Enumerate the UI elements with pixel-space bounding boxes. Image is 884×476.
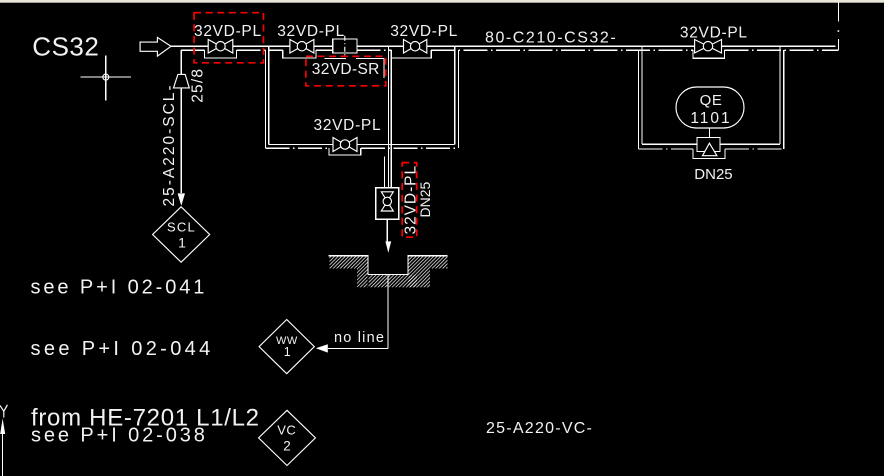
svg-text:1: 1 <box>284 345 291 359</box>
svg-text:1101: 1101 <box>690 110 731 127</box>
svg-text:see P+I 02-038: see P+I 02-038 <box>31 425 208 447</box>
svg-text:25-A220-SCL-: 25-A220-SCL- <box>161 83 178 206</box>
svg-text:DN25: DN25 <box>417 181 433 217</box>
svg-text:no line: no line <box>334 330 385 346</box>
svg-text:SCL: SCL <box>167 219 196 234</box>
svg-text:VC: VC <box>277 423 296 438</box>
svg-text:25/8: 25/8 <box>189 68 206 103</box>
svg-text:32VD-PL: 32VD-PL <box>277 23 345 40</box>
svg-text:QE: QE <box>700 92 723 109</box>
svg-text:32VD-PL: 32VD-PL <box>194 23 262 40</box>
svg-text:1: 1 <box>178 235 186 251</box>
svg-text:32VD-PL: 32VD-PL <box>314 117 382 134</box>
svg-text:see P+I 02-044: see P+I 02-044 <box>31 338 214 360</box>
svg-text:32VD-SR: 32VD-SR <box>312 61 380 78</box>
svg-text:25-A220-VC-: 25-A220-VC- <box>486 420 593 437</box>
svg-text:see P+I 02-041: see P+I 02-041 <box>31 277 208 299</box>
svg-text:2: 2 <box>283 438 291 453</box>
svg-text:32VD-PL: 32VD-PL <box>390 23 458 40</box>
svg-text:DN25: DN25 <box>694 166 732 183</box>
svg-text:CS32: CS32 <box>32 31 99 61</box>
svg-text:32VD-PL: 32VD-PL <box>680 25 748 42</box>
svg-text:80-C210-CS32-: 80-C210-CS32- <box>485 30 617 47</box>
